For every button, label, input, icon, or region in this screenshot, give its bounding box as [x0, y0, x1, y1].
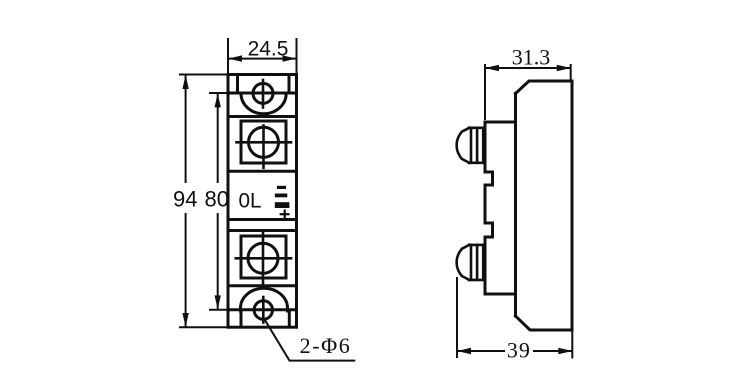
bottom terminal screw (side view) — [457, 245, 485, 280]
svg-text:2-Φ6: 2-Φ6 — [300, 333, 352, 358]
svg-text:31.3: 31.3 — [512, 45, 551, 70]
plus sign — [280, 213, 290, 215]
side view step vertical edge — [514, 94, 517, 317]
lower terminal horizontal center line — [236, 257, 291, 260]
svg-text:39: 39 — [507, 338, 531, 363]
dim 80 dimension line lower — [217, 213, 219, 309]
polarity bar thick — [275, 202, 290, 208]
top tab center line (full width) — [228, 92, 297, 95]
dim 24.5 left arrow — [228, 55, 242, 61]
side view right edge — [571, 81, 574, 330]
bottom tab left rib — [240, 310, 243, 327]
svg-text:80: 80 — [205, 187, 229, 212]
side view bottom edge — [516, 316, 573, 330]
bottom hole vertical center line — [262, 297, 265, 323]
front view body outline — [228, 75, 297, 328]
dim 31.3 dimension line — [485, 67, 571, 69]
top mounting tab right rib — [288, 75, 291, 94]
svg-text:0L: 0L — [239, 190, 262, 213]
dim 39 right extension line — [571, 331, 573, 359]
bottom tab dome arch — [241, 288, 288, 311]
dim 94 top arrow — [182, 75, 188, 89]
top tab bottom separator line — [228, 115, 297, 118]
side view bottom ledge — [485, 293, 516, 296]
dim 31.3 left extension line — [484, 64, 486, 120]
dim 94 bottom arrow — [182, 313, 188, 327]
bottom tab center line (full width) — [228, 308, 297, 311]
dim 94 bottom extension line — [179, 326, 228, 328]
top terminal screw (side view) — [457, 128, 485, 163]
leader line 2-phi6 — [265, 319, 356, 360]
upper terminal square — [241, 121, 286, 163]
lower terminal screw circle — [248, 243, 278, 273]
dim 39 right arrow — [558, 348, 572, 354]
top tab slot bowl — [241, 94, 286, 114]
top hole vertical center line — [262, 80, 265, 108]
polarity bar small — [277, 186, 286, 189]
top mounting hole circle — [253, 83, 273, 103]
dim 24.5 dimension line — [228, 58, 297, 60]
dim 31.3 right arrow — [557, 65, 571, 71]
dim 39 left extension line — [456, 277, 458, 358]
top mounting tab left rib — [236, 75, 239, 94]
side view top edge — [516, 81, 573, 94]
dim 80 top extension line — [209, 92, 228, 94]
label area bottom line — [228, 218, 297, 221]
dim 94 dimension line upper — [185, 75, 187, 183]
dim 80 top arrow — [215, 93, 221, 107]
bottom mounting hole circle — [254, 301, 272, 319]
dim 24.5 right extension line — [296, 38, 298, 74]
dim 31.3 left arrow — [485, 65, 499, 71]
polarity bar medium — [275, 194, 288, 198]
upper terminal horizontal center line — [237, 141, 292, 144]
dim 39 dimension line right — [533, 350, 572, 352]
upper terminal vertical center line — [262, 126, 265, 168]
dim 39 left arrow — [457, 348, 471, 354]
svg-text:24.5: 24.5 — [248, 38, 289, 61]
dim 31.3 right extension line — [570, 64, 572, 80]
dim 80 bottom arrow — [215, 295, 221, 309]
lower terminal vertical center line — [262, 231, 265, 286]
dim 24.5 right arrow — [283, 55, 297, 61]
lower terminal square — [241, 236, 286, 278]
label area top line — [228, 170, 297, 173]
side view top ledge — [485, 121, 516, 124]
dim 94 top extension line — [179, 74, 228, 76]
bottom tab right rib — [288, 310, 291, 327]
bottom tab top separator line — [228, 284, 297, 287]
dim 80 bottom extension line — [209, 309, 228, 311]
upper terminal screw circle — [249, 127, 279, 157]
dim 80 dimension line upper — [217, 93, 219, 183]
svg-text:94: 94 — [173, 187, 197, 212]
dim 24.5 left extension line — [227, 38, 229, 74]
SIDE VIEW — [485, 81, 572, 330]
dim 94 dimension line lower — [185, 213, 187, 327]
narrow band line — [228, 229, 297, 232]
dim 39 dimension line left — [457, 350, 505, 352]
side view mounting face with notches — [485, 122, 493, 294]
